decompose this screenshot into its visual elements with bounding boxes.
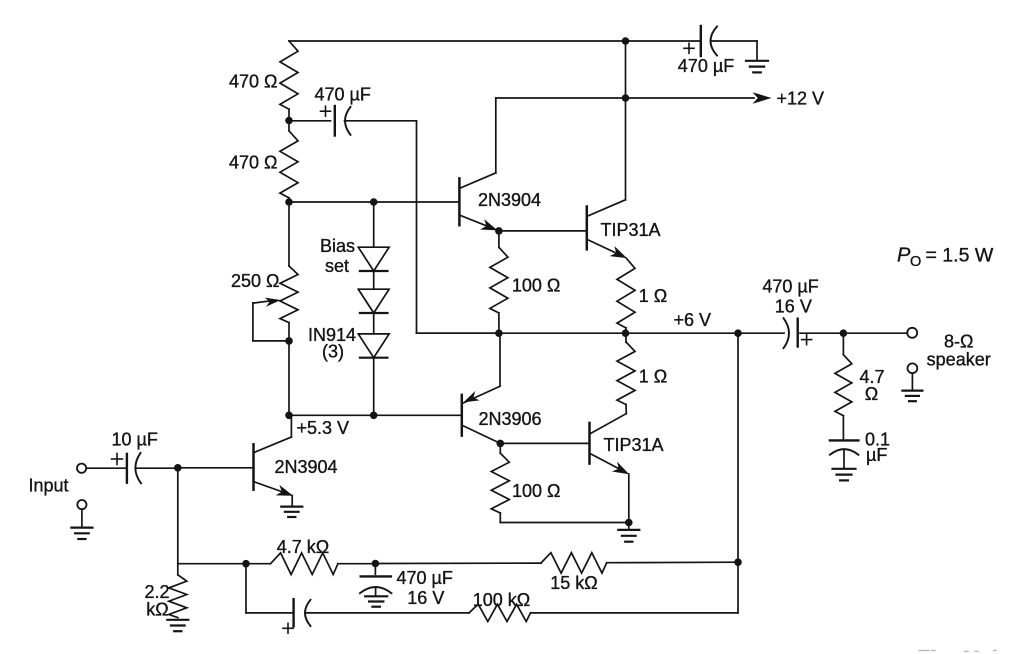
input terminal bbox=[77, 464, 126, 473]
wire feedback riser bbox=[737, 333, 739, 613]
svg-text:speaker: speaker bbox=[927, 350, 991, 370]
svg-text:= 1.5 W: = 1.5 W bbox=[926, 244, 994, 266]
node C6 top bbox=[372, 560, 380, 568]
speaker ground terminal bbox=[908, 363, 918, 390]
node diode chain top bbox=[370, 198, 378, 206]
ground input bbox=[71, 528, 92, 539]
svg-text:TIP31A: TIP31A bbox=[601, 220, 661, 240]
label C8 0.1 uF bbox=[865, 429, 890, 465]
resistor R6 1 ohm bbox=[617, 333, 635, 413]
svg-text:8-Ω: 8-Ω bbox=[944, 331, 973, 351]
potentiometer R3 250 ohm bbox=[280, 202, 298, 341]
svg-text:+6 V: +6 V bbox=[674, 310, 712, 330]
wire C3 to ground bbox=[756, 41, 758, 60]
label R3 250 ohm bbox=[231, 271, 280, 291]
svg-text:P: P bbox=[897, 245, 911, 267]
label IN914 (3) bbox=[308, 325, 356, 362]
label Bias set bbox=[320, 236, 355, 276]
input ground terminal bbox=[77, 500, 86, 527]
capacitor C2 470uF bootstrap bbox=[289, 106, 351, 136]
capacitor C7 feedback bbox=[283, 599, 469, 633]
label Po = 1.5 W bbox=[897, 244, 994, 270]
node +6V feedback tap bbox=[734, 329, 742, 337]
svg-text:µF: µF bbox=[866, 445, 887, 465]
capacitor C3 value label 470 uF bbox=[678, 56, 734, 76]
node feedback tap bbox=[242, 560, 250, 568]
wire +5.3V rail bbox=[289, 414, 460, 416]
ground R8 bbox=[167, 620, 188, 631]
wire feedback row1 left bbox=[178, 563, 271, 565]
svg-text:+5.3 V: +5.3 V bbox=[297, 418, 350, 438]
transistor Q4 TIP31A bbox=[590, 414, 630, 523]
label +12 V bbox=[777, 89, 825, 109]
label R12 4.7 ohm bbox=[860, 367, 885, 404]
svg-text:470 µF: 470 µF bbox=[315, 84, 371, 104]
diode D1 1N914 bbox=[358, 202, 389, 271]
node +5.3V left bbox=[285, 412, 293, 420]
node input coupling bbox=[174, 464, 182, 472]
svg-text:100 kΩ: 100 kΩ bbox=[473, 590, 531, 610]
label R6 1 ohm bbox=[639, 367, 667, 387]
wire +6V rail bbox=[417, 332, 785, 334]
wire C6 node to R10 bbox=[375, 562, 541, 564]
svg-text:set: set bbox=[325, 256, 349, 276]
ground Q4 bbox=[618, 530, 639, 542]
node zobel tap bbox=[840, 329, 848, 337]
wire +12V vertical drop bbox=[625, 41, 627, 98]
label C5 470 uF bbox=[762, 276, 818, 296]
resistor R2 470 ohm bbox=[280, 121, 298, 203]
svg-text:16 V: 16 V bbox=[775, 296, 812, 316]
svg-text:4.7 kΩ: 4.7 kΩ bbox=[277, 537, 329, 557]
svg-text:470 µF: 470 µF bbox=[762, 276, 818, 296]
label R8 2.2 kohm bbox=[144, 582, 169, 620]
label C2 470 uF bbox=[315, 84, 371, 104]
label R1 470 ohm bbox=[229, 71, 278, 91]
svg-text:10 µF: 10 µF bbox=[112, 430, 158, 450]
ground top-right bbox=[746, 61, 768, 73]
wire Q1 emitter to ground bbox=[291, 495, 293, 506]
resistor R5 1 ohm bbox=[617, 258, 635, 333]
svg-text:+12 V: +12 V bbox=[777, 89, 825, 109]
svg-text:470 Ω: 470 Ω bbox=[229, 153, 278, 173]
label Q3 TIP31A bbox=[601, 220, 661, 240]
label R10 15 kohm bbox=[550, 573, 597, 593]
capacitor C8 0.1uF bbox=[830, 440, 859, 468]
svg-text:Bias: Bias bbox=[320, 236, 355, 256]
label Q5 2N3906 bbox=[479, 409, 542, 429]
wire Q5 collector to Q4 base bbox=[500, 442, 588, 444]
transistor Q2 2N3904 driver bbox=[459, 98, 497, 230]
svg-text:100 Ω: 100 Ω bbox=[512, 275, 561, 295]
svg-text:TIP31A: TIP31A bbox=[604, 435, 664, 455]
node +6V output bbox=[622, 329, 630, 337]
resistor R8 2.2k bbox=[169, 564, 187, 618]
wire base rail to Q2 bbox=[289, 201, 458, 203]
svg-text:2N3904: 2N3904 bbox=[478, 190, 541, 210]
diode D2 1N914 bbox=[358, 271, 389, 313]
transistor Q3 TIP31A bbox=[587, 98, 627, 258]
wire top supply rail bbox=[289, 40, 700, 42]
node feedback right bbox=[734, 558, 742, 566]
capacitor C3 470uF supply bypass bbox=[684, 26, 757, 56]
ground Q1 emitter bbox=[281, 507, 302, 517]
wire R9 to C6 node bbox=[338, 563, 376, 565]
capacitor C1 10uF bbox=[112, 453, 178, 483]
node R1/R2 junction bbox=[285, 117, 293, 125]
resistor R7 100 ohm bbox=[491, 443, 629, 522]
wire pot to +5.3V rail bbox=[288, 341, 290, 415]
ground C6 bbox=[365, 596, 387, 606]
label R4 100 ohm bbox=[512, 275, 561, 295]
wire R10 to right node bbox=[607, 561, 738, 564]
transistor Q1 2N3904 bbox=[254, 415, 294, 495]
wire +12V rail bbox=[496, 97, 754, 99]
node +12V junction bbox=[622, 94, 630, 102]
wire node down to feedback bbox=[177, 468, 179, 564]
resistor R1 470 ohm bbox=[280, 41, 298, 121]
label Q1 2N3904 bbox=[275, 457, 338, 477]
label C6 16 V bbox=[407, 588, 444, 608]
wire Q4 to ground bbox=[628, 523, 630, 530]
svg-text:2N3904: 2N3904 bbox=[275, 457, 338, 477]
arrow +12V bbox=[753, 92, 772, 104]
wire Q2 emitter to Q3 base bbox=[499, 230, 585, 232]
svg-text:Input: Input bbox=[29, 475, 69, 495]
node top-right junction bbox=[622, 37, 630, 45]
resistor R11 100k bbox=[469, 604, 531, 621]
label +5.3 V bbox=[297, 418, 350, 438]
svg-text:1 Ω: 1 Ω bbox=[639, 286, 667, 306]
label C1 10 uF bbox=[112, 430, 158, 450]
svg-text:Ω: Ω bbox=[865, 384, 878, 404]
resistor R12 4.7 ohm bbox=[835, 333, 852, 440]
diode D3 1N914 bbox=[358, 313, 389, 415]
svg-text:O: O bbox=[910, 254, 921, 270]
svg-text:1 Ω: 1 Ω bbox=[639, 367, 667, 387]
svg-text:2N3906: 2N3906 bbox=[479, 409, 542, 429]
label C5 16 V bbox=[775, 296, 812, 316]
node R2 bottom junction bbox=[285, 198, 293, 206]
node diode chain bottom bbox=[370, 412, 378, 420]
resistor R9 4.7k bbox=[271, 553, 338, 575]
svg-text:470 µF: 470 µF bbox=[397, 568, 453, 588]
node Q5 collector bbox=[497, 440, 505, 448]
resistor R4 100 ohm bbox=[490, 231, 508, 333]
svg-text:(3): (3) bbox=[322, 342, 344, 362]
resistor R10 15k bbox=[541, 553, 607, 573]
svg-text:470 µF: 470 µF bbox=[678, 56, 734, 76]
ground C8 bbox=[833, 469, 856, 481]
label R5 1 ohm bbox=[639, 286, 667, 306]
label Q2 2N3904 bbox=[478, 190, 541, 210]
label 8-ohm speaker bbox=[927, 331, 991, 369]
wire feedback row2 left bbox=[246, 564, 293, 613]
wire R11 to right riser bbox=[531, 612, 739, 614]
node +6V mid-left bbox=[495, 329, 503, 337]
artifact marks bbox=[919, 650, 996, 653]
label Q4 TIP31A bbox=[604, 435, 664, 455]
label R2 470 ohm bbox=[229, 153, 278, 173]
node wiper junction bbox=[285, 337, 293, 345]
wire node to Q1 base bbox=[178, 467, 252, 469]
svg-text:470 Ω: 470 Ω bbox=[229, 71, 278, 91]
svg-text:16 V: 16 V bbox=[407, 588, 444, 608]
svg-text:100 Ω: 100 Ω bbox=[512, 481, 561, 501]
node Q4 emitter ground bbox=[625, 519, 633, 527]
svg-text:kΩ: kΩ bbox=[146, 599, 168, 619]
transistor Q5 2N3906 bbox=[462, 333, 501, 443]
label R9 4.7 kohm bbox=[277, 537, 329, 557]
svg-text:15 kΩ: 15 kΩ bbox=[550, 573, 597, 593]
label +6 V bbox=[674, 310, 712, 330]
capacitor C5 470uF output bbox=[784, 318, 908, 348]
ground speaker bbox=[902, 391, 922, 402]
label R11 100 kohm bbox=[473, 590, 531, 610]
wire C2 to bootstrap node bbox=[345, 121, 499, 333]
node Q2 emitter bbox=[495, 227, 503, 235]
label Input bbox=[29, 475, 69, 495]
svg-text:250 Ω: 250 Ω bbox=[231, 271, 280, 291]
label C6 470 uF bbox=[397, 568, 453, 588]
output terminal bbox=[907, 328, 917, 338]
label R7 100 ohm bbox=[512, 481, 561, 501]
wiper arm R3 bbox=[253, 298, 289, 341]
capacitor C6 470uF 16V bbox=[360, 564, 392, 596]
